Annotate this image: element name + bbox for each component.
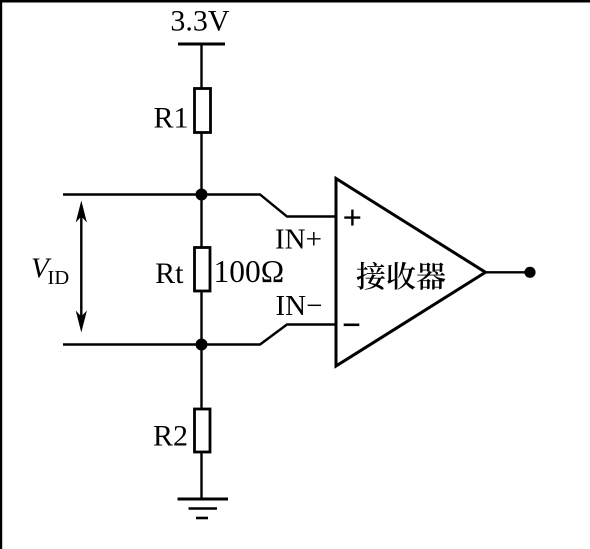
svg-text:3.3V: 3.3V	[170, 5, 230, 38]
ground	[178, 499, 229, 518]
resistor Rt	[195, 248, 211, 292]
svg-text:100Ω: 100Ω	[214, 254, 285, 289]
resistor R1	[195, 89, 211, 133]
node A junction dot	[196, 189, 208, 201]
svg-text:IN+: IN+	[275, 224, 322, 256]
wire Rt to R2 through node B	[200, 291, 202, 409]
wire lower differential line	[63, 325, 337, 345]
label receiver jieshouqi glyphs	[357, 262, 446, 290]
svg-text:R1: R1	[153, 102, 188, 135]
op-amp U1 receiver triangle	[336, 179, 486, 367]
wire op-amp output	[485, 271, 525, 273]
svg-text:ID: ID	[48, 267, 70, 289]
svg-text:R2: R2	[153, 420, 188, 453]
output terminal dot	[524, 267, 535, 278]
wire upper differential line	[63, 195, 337, 217]
wire R2 to ground	[200, 452, 202, 499]
op-amp minus input marker	[344, 323, 360, 326]
power rail 3.3V bar	[178, 43, 225, 46]
op-amp plus input marker	[344, 210, 360, 226]
svg-text:IN−: IN−	[276, 290, 323, 322]
wire R1 to Rt through node A	[200, 132, 202, 248]
node B junction dot	[196, 339, 208, 351]
wire power bar to R1	[200, 45, 202, 89]
resistor R2	[195, 409, 211, 452]
V_ID measurement arrow double headed	[76, 201, 87, 333]
svg-text:Rt: Rt	[155, 257, 184, 290]
